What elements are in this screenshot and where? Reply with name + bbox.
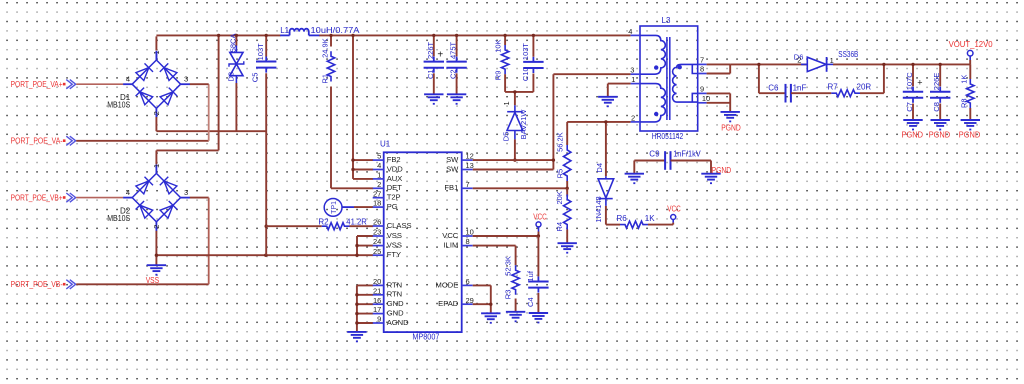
wire SW to xfmr pin3 — [553, 73, 630, 75]
label D2 — [107, 206, 131, 223]
svg-text:R7: R7 — [828, 83, 839, 92]
svg-text:FTY: FTY — [387, 250, 401, 259]
label R8 — [959, 75, 968, 108]
svg-text:PORT_POE_VA+: PORT_POE_VA+ — [11, 80, 63, 89]
capacitor C7 — [903, 87, 923, 103]
svg-text:D3: D3 — [226, 72, 235, 82]
junction vert/FB2 — [351, 34, 354, 162]
svg-text:+: + — [437, 50, 443, 61]
power VCC (C4) — [533, 213, 547, 236]
svg-text:1N4148: 1N4148 — [594, 196, 603, 222]
svg-text:PG: PG — [387, 202, 398, 211]
wire C7 top stem — [912, 64, 914, 86]
svg-text:BAV21W: BAV21W — [519, 109, 528, 140]
svg-text:20R: 20R — [857, 83, 872, 92]
svg-text:RTN: RTN — [387, 290, 402, 299]
junction SW12/vert — [552, 158, 555, 161]
svg-text:VSS: VSS — [387, 241, 402, 250]
svg-text:10: 10 — [702, 94, 710, 103]
svg-text:+: + — [917, 77, 922, 87]
wire snubber drop — [758, 64, 760, 93]
junction D2-gnd/VSS — [155, 254, 158, 257]
wire R8 bottom — [969, 108, 971, 120]
wire sec 9/10 join — [707, 93, 731, 111]
label PGND C8 — [929, 130, 951, 139]
label D4 — [594, 163, 604, 223]
wire C2 bottom stem — [456, 73, 458, 94]
transformer L3 — [631, 26, 707, 131]
junction rail/D3 — [235, 34, 238, 37]
svg-text:1: 1 — [152, 164, 161, 168]
junction rail/C5 — [265, 34, 268, 37]
label R1 — [320, 38, 329, 83]
label R6 — [617, 214, 656, 223]
svg-text:R2: R2 — [318, 218, 329, 227]
wire D3 top stem — [235, 35, 237, 52]
junction VCC/C4 — [537, 234, 540, 237]
capacitor C2 — [446, 57, 466, 73]
resistor R1 — [327, 51, 334, 81]
wire C5 bottom stem — [265, 73, 267, 255]
ground PGND (xfmr) — [721, 112, 741, 132]
svg-text:L3: L3 — [662, 16, 671, 25]
svg-text:R1: R1 — [320, 74, 329, 84]
svg-text:FB2: FB2 — [387, 155, 401, 164]
wire R4 bottom — [566, 230, 568, 243]
junction C5/R2 — [265, 225, 268, 228]
label D6 — [794, 50, 859, 65]
capacitor C6 — [786, 84, 791, 103]
svg-text:17: 17 — [373, 305, 381, 314]
wire D5 top stem — [514, 92, 516, 105]
svg-text:DET: DET — [387, 183, 403, 192]
diode D6 — [801, 57, 833, 72]
wire C1 bottom stem — [433, 73, 435, 94]
svg-text:4: 4 — [126, 75, 130, 84]
diode D5 — [507, 105, 523, 139]
svg-text:103T: 103T — [256, 43, 265, 61]
svg-text:U1: U1 — [380, 139, 391, 148]
wire D3 bottom stem — [235, 76, 237, 132]
svg-text:D4: D4 — [595, 163, 604, 173]
svg-text:R6: R6 — [617, 214, 628, 223]
diode D3 (TVS) — [229, 52, 244, 75]
svg-text:7: 7 — [700, 56, 704, 65]
wire MODE — [473, 285, 491, 304]
wire VDD rail — [156, 34, 630, 36]
svg-text:23: 23 — [373, 228, 381, 237]
svg-text:MODE: MODE — [436, 280, 459, 289]
wire D1 pin1 to rail — [155, 36, 157, 59]
svg-text:3: 3 — [184, 75, 188, 84]
svg-text:1nF/1kV: 1nF/1kV — [673, 149, 701, 158]
label D1 — [107, 93, 131, 110]
svg-text:9: 9 — [377, 315, 381, 324]
wire D4 bottom — [606, 206, 620, 225]
IC U1 MP8007 box — [384, 152, 462, 332]
junction D4/pin2row — [604, 120, 607, 123]
wire R5 top — [566, 122, 568, 145]
svg-text:R5: R5 — [556, 169, 565, 179]
xfmr pin numbers — [628, 27, 710, 123]
wire R9 top stem — [504, 35, 506, 45]
wire R9/C10 join — [505, 91, 533, 93]
wire C4 top stem — [537, 236, 539, 276]
svg-text:C5: C5 — [250, 73, 259, 83]
wire D2 pin2 to ground — [155, 231, 157, 265]
svg-text:1: 1 — [502, 101, 511, 105]
wire C10 bottom stem — [532, 74, 534, 92]
ground R8 PGND — [961, 120, 980, 130]
wire C8 top stem — [939, 64, 941, 86]
svg-text:GND: GND — [387, 309, 404, 318]
svg-text:1nF: 1nF — [793, 83, 807, 92]
junction vert/VDD — [351, 168, 354, 171]
label R4 — [555, 191, 564, 231]
svg-text:D5: D5 — [502, 132, 511, 142]
label MP8007 — [412, 333, 439, 342]
label C4 — [526, 270, 535, 307]
svg-text:16: 16 — [373, 296, 381, 305]
wire D1 pin3 to VA- vert — [190, 83, 209, 85]
label C9 — [649, 149, 701, 158]
wire R2 right — [350, 225, 374, 227]
svg-text:R9: R9 — [494, 71, 503, 81]
resistor R4 — [564, 195, 571, 230]
svg-text:RTN: RTN — [387, 280, 402, 289]
ground C9 right PGND — [701, 166, 731, 184]
wire R9 bottom stem — [504, 74, 506, 92]
capacitor C9 — [665, 151, 670, 170]
wire xfmr pin1 — [608, 84, 631, 97]
svg-text:ILIM: ILIM — [444, 241, 459, 250]
wire ILIM — [473, 246, 516, 266]
junction RTN bundle — [355, 293, 358, 325]
wire C7 bottom stem — [912, 104, 914, 120]
diode D4 — [598, 176, 614, 206]
junction out/C7 — [911, 63, 914, 66]
ground C4 — [529, 313, 548, 323]
svg-text:PORT_POE_VB-: PORT_POE_VB- — [11, 280, 63, 289]
svg-text:GND: GND — [387, 299, 404, 308]
svg-text:AGND: AGND — [387, 318, 409, 327]
svg-text:SW: SW — [446, 155, 459, 164]
svg-text:VDD: VDD — [387, 164, 404, 173]
svg-text:PGND: PGND — [959, 130, 981, 139]
wire DET row — [331, 187, 373, 189]
label HR051142 — [652, 132, 684, 141]
ground C1 — [424, 94, 443, 104]
svg-text:C9: C9 — [649, 149, 660, 158]
svg-text:24.9K: 24.9K — [320, 38, 329, 58]
label R3 — [503, 256, 512, 299]
svg-text:PORT_POE_VB+: PORT_POE_VB+ — [11, 194, 63, 203]
capacitor C1 — [424, 57, 444, 73]
ground C9 left — [625, 174, 644, 184]
junction out/C8 — [939, 63, 942, 66]
svg-text:C2: C2 — [449, 69, 458, 79]
svg-text:MP8007: MP8007 — [412, 333, 439, 342]
svg-text:VSS: VSS — [146, 276, 160, 285]
inductor L1 — [280, 29, 319, 36]
ground AGND — [347, 332, 366, 342]
wire VSS pins bundle — [357, 236, 373, 255]
label C8 — [932, 73, 941, 112]
svg-text:FB1: FB1 — [444, 183, 458, 192]
U1 left pins — [373, 152, 412, 327]
svg-text:PGND: PGND — [929, 130, 951, 139]
svg-text:475T: 475T — [449, 41, 458, 59]
junction snubber — [757, 63, 760, 66]
label R7 — [828, 83, 872, 92]
wire D1 pin2 down — [155, 117, 157, 131]
wire C2 top stem — [456, 35, 458, 56]
svg-text:C10: C10 — [521, 67, 530, 81]
capacitor C8 — [930, 87, 950, 103]
port PORT_POE_VA+ — [11, 80, 124, 90]
junction D2pin1/rail — [217, 34, 220, 37]
label PGND C7 — [902, 130, 924, 139]
capacitor C5 — [256, 57, 276, 73]
junction VSS bundle — [355, 244, 358, 257]
svg-text:226T: 226T — [426, 41, 435, 59]
svg-text:CLASS: CLASS — [387, 221, 412, 230]
junction rail/R1 — [329, 34, 332, 37]
svg-text:L1: L1 — [280, 26, 289, 35]
label L3 — [662, 16, 671, 25]
svg-text:PGND: PGND — [712, 166, 732, 175]
label R2 — [318, 218, 367, 227]
wire C8 bottom stem — [939, 104, 941, 120]
resistor R8 — [967, 79, 974, 108]
wire C5 top stem — [265, 35, 267, 56]
svg-text:EPAD: EPAD — [438, 299, 459, 308]
svg-text:VCC: VCC — [667, 205, 681, 214]
svg-text:PORT_POE_VA-: PORT_POE_VA- — [11, 137, 63, 146]
resistor R5 — [564, 145, 571, 181]
svg-text:52.3K: 52.3K — [503, 256, 512, 276]
label C5 — [250, 43, 264, 82]
svg-text:27: 27 — [373, 189, 381, 198]
junction rail/C1 — [432, 34, 435, 37]
wire C1 top stem — [433, 35, 435, 56]
port PORT_POE_VA- — [11, 136, 209, 146]
junction rail/R9 — [503, 34, 506, 37]
wire R7 right — [860, 64, 884, 93]
svg-text:7: 7 — [466, 180, 470, 189]
svg-text:10K: 10K — [494, 39, 503, 52]
U1 right pins — [436, 152, 474, 308]
svg-text:2: 2 — [631, 113, 635, 122]
test point TP1 — [324, 199, 373, 217]
svg-text:1K: 1K — [959, 75, 968, 84]
junction D5 top — [513, 90, 516, 93]
resistor R9 — [501, 45, 508, 74]
svg-text:2: 2 — [377, 180, 381, 189]
svg-text:9: 9 — [700, 85, 704, 94]
wire D6 cathode — [833, 63, 970, 65]
label C7 — [905, 72, 923, 112]
wire VSS row — [156, 254, 357, 256]
junction VSS/C5 branch — [264, 254, 267, 257]
svg-text:AUX: AUX — [387, 174, 403, 183]
label U1 — [380, 139, 391, 148]
svg-text:18: 18 — [373, 199, 381, 208]
svg-text:2: 2 — [797, 56, 801, 65]
wire R5 bottom — [566, 181, 568, 188]
svg-text:3: 3 — [630, 66, 634, 75]
svg-text:20: 20 — [373, 277, 381, 286]
svg-text:R3: R3 — [503, 290, 512, 300]
svg-text:8: 8 — [700, 65, 704, 74]
wire FB1 — [473, 187, 568, 189]
wire C9 right — [671, 161, 712, 174]
svg-text:SW: SW — [446, 164, 459, 173]
svg-text:4: 4 — [126, 188, 130, 197]
svg-text:20K: 20K — [555, 191, 564, 204]
label R5 — [556, 132, 565, 178]
svg-text:56.2K: 56.2K — [556, 132, 565, 152]
resistor R2 — [322, 223, 350, 230]
label D3 — [226, 34, 237, 82]
junction R7/out — [882, 63, 885, 66]
svg-text:C4: C4 — [526, 297, 535, 307]
svg-text:VSS: VSS — [387, 231, 402, 240]
ground C8 PGND — [931, 120, 950, 130]
svg-text:PGND: PGND — [902, 130, 924, 139]
resistor R7 — [831, 90, 860, 97]
wire D5 bottom stem — [514, 139, 516, 160]
wire D2 pin3 right — [190, 198, 209, 285]
resistor R6 — [620, 221, 648, 228]
svg-text:25: 25 — [373, 247, 381, 256]
wire RTN/GND bundle — [357, 285, 373, 331]
wire R8 top — [969, 64, 971, 79]
svg-text:C1: C1 — [426, 69, 435, 79]
port PORT_POE_VB- — [11, 280, 209, 290]
svg-text:VCC: VCC — [442, 231, 459, 240]
svg-text:T2P: T2P — [387, 193, 401, 202]
svg-text:1uf: 1uf — [526, 270, 535, 281]
svg-text:4: 4 — [377, 161, 381, 170]
ground R3 — [506, 312, 525, 322]
svg-text:TP1: TP1 — [331, 201, 338, 214]
junction FB1/R5/R4 — [566, 187, 569, 190]
power VCC (R6) — [667, 205, 681, 225]
wire R4 top — [566, 188, 568, 196]
wire D4 top stem — [605, 122, 607, 176]
node VOUT_12V0 — [949, 40, 994, 64]
svg-text:SS36B: SS36B — [838, 50, 858, 59]
label C6 — [768, 83, 806, 92]
label C2 — [449, 41, 458, 79]
svg-text:3: 3 — [184, 188, 188, 197]
wire EPAD — [473, 304, 491, 313]
junction D5/SW — [513, 158, 516, 161]
svg-text:6: 6 — [466, 277, 470, 286]
svg-text:41.2R: 41.2R — [346, 218, 367, 227]
svg-text:1: 1 — [631, 75, 635, 84]
label D5 — [502, 101, 529, 141]
wire sec out — [730, 63, 807, 65]
ground C2 — [447, 94, 466, 104]
ground R4 — [558, 243, 577, 253]
junction MODE/EPAD — [489, 303, 492, 306]
svg-text:107C: 107C — [905, 72, 914, 91]
svg-text:R4: R4 — [555, 222, 564, 232]
wire SW vertical — [552, 74, 554, 169]
wire SW13 — [473, 169, 554, 171]
wire D2 pin1 up — [156, 35, 218, 164]
svg-text:13: 13 — [466, 161, 474, 170]
label L1 — [280, 26, 360, 35]
svg-text:4: 4 — [628, 27, 632, 36]
resistor R3 — [512, 265, 519, 295]
svg-text:MB10S: MB10S — [107, 101, 130, 110]
svg-text:10: 10 — [466, 228, 474, 237]
svg-text:2: 2 — [152, 225, 161, 229]
wire R1 top stem — [330, 35, 332, 46]
svg-text:VCC: VCC — [533, 213, 547, 222]
junction rail/C10 — [532, 34, 535, 37]
label PGND R8 — [959, 130, 981, 139]
wire C4 bottom stem — [537, 293, 539, 313]
ground MODE/EPAD — [481, 313, 500, 323]
wire C9 left — [634, 161, 665, 174]
svg-text:2: 2 — [152, 111, 161, 115]
wire VCC pin10 — [473, 235, 539, 237]
svg-text:1K: 1K — [645, 214, 655, 223]
bridge rectifier D1 — [123, 50, 190, 117]
wire C10 top stem — [532, 35, 534, 56]
bridge rectifier D2 — [123, 164, 190, 231]
svg-text:29: 29 — [466, 296, 474, 305]
ground VSS (D2) — [146, 265, 166, 285]
wire SW12 — [473, 159, 554, 161]
svg-text:C6: C6 — [768, 83, 779, 92]
wire C6 left — [759, 92, 786, 94]
wire sec 7/8 join — [707, 64, 731, 73]
svg-text:C8: C8 — [932, 102, 941, 112]
svg-text:VOUT_12V0: VOUT_12V0 — [949, 40, 994, 49]
svg-text:1: 1 — [377, 171, 381, 180]
svg-text:HR051142: HR051142 — [652, 132, 684, 141]
svg-text:226E: 226E — [932, 73, 941, 91]
svg-text:MB10S: MB10S — [107, 214, 130, 223]
ground C7 PGND — [903, 120, 922, 130]
wire R1 bottom stem — [330, 87, 332, 189]
svg-text:R8: R8 — [959, 98, 968, 108]
svg-text:26: 26 — [373, 218, 381, 227]
junction rail/C2 — [455, 34, 458, 37]
ground xfmr pin1 — [598, 97, 617, 107]
wire R6 right — [648, 224, 673, 226]
label R9 — [494, 39, 503, 80]
wire FB2/VDD/AUX vertical — [353, 35, 373, 179]
wire VA- vertical — [208, 84, 210, 141]
svg-text:24: 24 — [373, 237, 381, 246]
wire xfmr pin2 row — [567, 121, 630, 123]
wire R3 bottom — [515, 299, 517, 312]
capacitor C10 — [523, 57, 543, 73]
svg-text:103T: 103T — [521, 43, 530, 61]
svg-text:5: 5 — [377, 152, 381, 161]
svg-text:8: 8 — [466, 237, 470, 246]
svg-text:PGND: PGND — [721, 123, 741, 132]
wire R2 left — [266, 225, 322, 227]
label C10 — [521, 43, 530, 82]
wire VSS row upper — [156, 130, 265, 132]
